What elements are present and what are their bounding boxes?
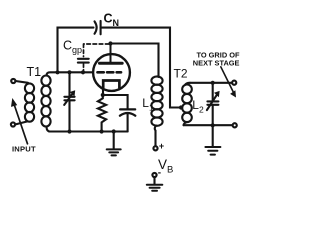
node: tap junction on L2 bbox=[179, 105, 183, 109]
node: varcap bottom bbox=[67, 129, 71, 133]
wire: top neutralizing wire right segment bbox=[101, 28, 182, 108]
svg-text:-: - bbox=[158, 167, 161, 178]
node: output varcap bottom bbox=[211, 123, 215, 127]
node: C_gp on grid wire bbox=[81, 70, 85, 74]
wire: grid wire from T1 secondary to tube bbox=[47, 72, 94, 75]
resistor: cathode bias bbox=[98, 95, 106, 132]
svg-text:T2: T2 bbox=[174, 66, 188, 80]
svg-text:+: + bbox=[159, 141, 164, 151]
transformer T1 secondary winding bbox=[41, 76, 50, 86]
node: resistor bottom bbox=[100, 129, 104, 133]
svg-text:INPUT: INPUT bbox=[12, 144, 36, 153]
capacitance C_gp dashed path bbox=[84, 43, 109, 45]
node: plate junction bbox=[108, 41, 112, 45]
wire: output bottom bbox=[184, 124, 233, 126]
wire: cathode to bypass cap bbox=[103, 95, 128, 109]
arrowhead: output pointer bbox=[230, 90, 236, 97]
node: cathode junction bbox=[101, 93, 105, 97]
variable capacitor: output tank bbox=[212, 83, 214, 101]
transformer T1 primary winding bbox=[16, 81, 29, 83]
ground: V_B bbox=[153, 177, 155, 184]
terminal: input top bbox=[11, 79, 15, 83]
arrow: output pointer bbox=[221, 67, 234, 93]
tube plate bbox=[100, 62, 123, 65]
node: grid wire / C_N drop junction bbox=[55, 70, 59, 74]
wire: plate to L1 bbox=[111, 44, 159, 78]
wire: top neutralizing wire left segment bbox=[58, 28, 94, 73]
tube grid (dashed) bbox=[98, 71, 122, 74]
svg-text:T1: T1 bbox=[27, 65, 42, 79]
terminal: output top bbox=[232, 81, 236, 85]
variable capacitor: T1 tank bbox=[68, 72, 70, 96]
wire: bottom bus (cathode ground bus) bbox=[49, 130, 128, 132]
triode tube envelope bbox=[93, 54, 130, 91]
arrowhead: INPUT pointer bbox=[11, 98, 17, 107]
svg-text:NEXT STAGE: NEXT STAGE bbox=[193, 58, 240, 67]
wire: cathode down bbox=[102, 87, 104, 95]
terminal: output bottom bbox=[233, 123, 237, 127]
capacitor C_N bbox=[95, 21, 97, 33]
ground: bottom left bbox=[112, 129, 116, 133]
terminal: input bottom bbox=[11, 122, 15, 126]
arrowhead: left varcap bbox=[70, 90, 75, 96]
ground: output bbox=[212, 125, 214, 146]
node: varcap top bbox=[67, 70, 71, 74]
terminal: V_B plus bbox=[153, 146, 157, 150]
tube cathode bbox=[103, 81, 119, 88]
arrowhead: right varcap bbox=[214, 91, 220, 97]
node: output varcap top bbox=[211, 81, 215, 85]
transformer T2 secondary L2 bbox=[182, 85, 192, 94]
wire: output top bbox=[190, 82, 232, 84]
terminal: V_B minus bbox=[152, 173, 156, 177]
capacitor: cathode bypass bbox=[120, 108, 135, 110]
arrow: INPUT pointer bbox=[14, 105, 27, 144]
inductor L1 bbox=[151, 76, 162, 84]
